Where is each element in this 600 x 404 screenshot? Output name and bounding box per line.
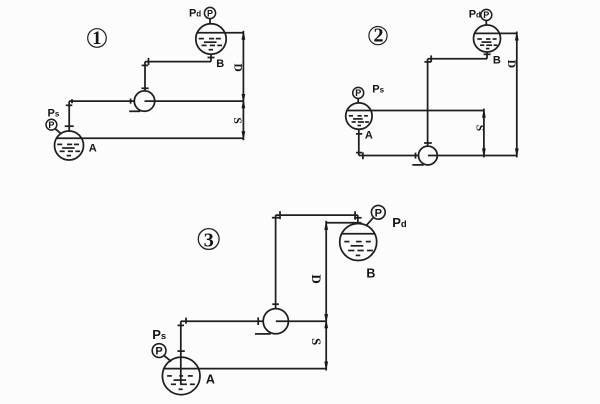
svg-text:D: D xyxy=(505,60,517,68)
svg-text:d: d xyxy=(476,10,481,19)
svg-text:P: P xyxy=(469,9,476,21)
svg-text:P: P xyxy=(48,108,55,120)
svg-text:P: P xyxy=(207,8,213,18)
svg-text:P: P xyxy=(375,207,382,219)
svg-text:P: P xyxy=(48,120,54,130)
svg-text:d: d xyxy=(196,10,201,19)
svg-text:d: d xyxy=(401,219,407,230)
svg-text:1: 1 xyxy=(92,28,102,49)
svg-text:P: P xyxy=(155,346,162,358)
svg-text:A: A xyxy=(206,372,215,386)
svg-text:3: 3 xyxy=(204,229,214,251)
svg-text:A: A xyxy=(89,143,97,155)
svg-text:S: S xyxy=(309,338,324,345)
svg-text:S: S xyxy=(231,117,243,123)
svg-text:P: P xyxy=(372,84,379,96)
svg-text:B: B xyxy=(216,58,224,70)
svg-text:B: B xyxy=(493,55,501,67)
svg-text:2: 2 xyxy=(374,25,384,47)
svg-text:s: s xyxy=(161,331,166,342)
svg-text:s: s xyxy=(380,86,385,95)
svg-text:S: S xyxy=(473,125,485,131)
svg-text:P: P xyxy=(355,88,361,98)
svg-text:s: s xyxy=(55,110,60,119)
svg-text:B: B xyxy=(366,266,375,280)
svg-text:D: D xyxy=(309,274,324,283)
svg-text:P: P xyxy=(483,10,489,20)
svg-text:A: A xyxy=(365,130,373,142)
svg-text:P: P xyxy=(189,8,196,20)
svg-text:D: D xyxy=(231,64,243,72)
